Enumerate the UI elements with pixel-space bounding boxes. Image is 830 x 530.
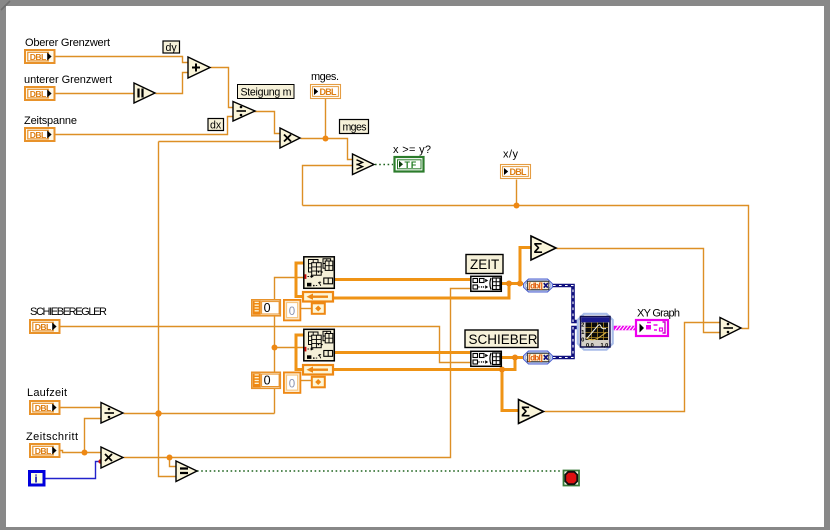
feedback node upper (303, 292, 333, 302)
wire ZEIT node out to convert (502, 282, 523, 285)
wire ZEIT branch to top sum (520, 248, 531, 284)
svg-text:dx: dx (210, 120, 222, 132)
junction dot lower divide out (155, 410, 161, 416)
wire lower array node out to SCHIEBER node (335, 351, 470, 354)
junction dot SCHIEBER feedback (499, 367, 505, 373)
label dx (208, 119, 224, 132)
wire greater-equal lower input from x/y (303, 166, 353, 206)
node convert to dynamic SCHIEBER (524, 351, 553, 364)
wire lower divide out with risers (124, 413, 275, 415)
svg-text:1: 1 (581, 330, 584, 336)
svg-text:Zeitschritt: Zeitschritt (26, 431, 78, 443)
label mges (340, 120, 369, 134)
junction dot lower multiply out (167, 455, 173, 461)
wire ZEIT feedback loop (334, 284, 509, 299)
svg-text:x >= y?: x >= y? (393, 144, 431, 156)
svg-text:mges: mges (343, 122, 367, 134)
svg-text:2: 2 (581, 323, 584, 329)
svg-text:0,0: 0,0 (586, 343, 594, 349)
wire dynamic data ZEIT (553, 286, 578, 322)
svg-text:mges.: mges. (311, 71, 339, 83)
wire boolean dotted to stop (197, 470, 562, 472)
wire divide to multiply (254, 112, 281, 134)
svg-text:SCHIEBER: SCHIEBER (469, 332, 538, 347)
wire negate to add (156, 73, 189, 94)
label dy (163, 41, 180, 54)
terminal stop button (564, 471, 580, 486)
junction dot SCHIEBER out (512, 355, 518, 361)
label ZEIT (466, 255, 503, 274)
node greater-equal (353, 154, 375, 175)
junction dot multiply out (323, 136, 329, 142)
constant 0 lower init (284, 372, 301, 393)
wire lower feedback to array node input (296, 335, 304, 370)
node convert to dynamic ZEIT (524, 279, 553, 292)
control Zeitspanne DBL (25, 128, 55, 141)
wire riser to equal lower input (159, 414, 177, 477)
junction dot x/y tap (514, 203, 520, 209)
wire add to divide (211, 68, 234, 108)
wire bottom sum to right divide (545, 323, 721, 412)
svg-text:Laufzeit: Laufzeit (27, 387, 67, 399)
wire index branch lower array node (275, 347, 305, 349)
svg-text:x/y: x/y (503, 149, 519, 161)
wire Zeitspanne to divide (56, 117, 234, 135)
svg-text:ZEIT: ZEIT (470, 257, 499, 272)
svg-text:i: i (35, 474, 38, 486)
node add (188, 57, 210, 78)
node sum top (531, 236, 556, 260)
control Laufzeit DBL (30, 401, 60, 414)
wire riser index to array nodes (275, 278, 305, 414)
wire riser to multiply upper (158, 142, 160, 414)
indicator x/y DBL (501, 165, 531, 179)
wire unterer Grenzwert to negate (56, 93, 135, 95)
node build-array SCHIEBER (471, 351, 502, 366)
constant 0 upper DBL (252, 300, 280, 316)
node divide upper (233, 102, 255, 122)
wire top sum to right divide (557, 249, 721, 333)
wire x/y indicator drop (516, 180, 518, 206)
wire upper feedback to array node input (296, 263, 304, 297)
node negate (134, 83, 155, 103)
wire Laufzeit to lower divide (61, 407, 102, 409)
indicator x greater equal y TF (395, 157, 424, 172)
wire x/y long horizontal (303, 206, 749, 329)
wire multiply out to greater-equal (301, 139, 353, 160)
junction dot ZEIT out a (506, 281, 512, 287)
node build-array ZEIT (471, 276, 502, 291)
svg-text:unterer Grenzwert: unterer Grenzwert (24, 74, 112, 86)
wire branch to equal node (170, 458, 177, 467)
terminal iteration i (30, 472, 45, 486)
wire slope long input to multiply (159, 141, 281, 143)
node divide right (720, 318, 741, 339)
wire SCHIEBER feedback loop (334, 358, 515, 370)
svg-text:TF: TF (405, 160, 418, 170)
junction dot Zeitschritt branch (82, 450, 88, 456)
node sum bottom (519, 400, 544, 424)
node upper replace-array (304, 257, 335, 289)
wire iteration terminal blue (45, 462, 100, 479)
svg-text:0: 0 (581, 338, 584, 344)
wire Zeitschritt branch to lower divide (85, 419, 102, 453)
control SCHIEBEREGLER DBL (30, 320, 60, 333)
control Zeitschritt DBL (30, 444, 60, 457)
svg-text:SCHIEBEREGLER: SCHIEBEREGLER (30, 306, 107, 318)
feedback node lower (303, 365, 333, 375)
junction dot index riser (272, 345, 278, 351)
svg-text:1,0: 1,0 (601, 343, 609, 349)
wire magenta to XY Graph (613, 326, 636, 330)
wire Zeitschritt to lower multiply (61, 451, 102, 453)
svg-text:Steigung m: Steigung m (241, 87, 292, 99)
node lower divide (101, 403, 123, 424)
indicator mges. DBL (311, 85, 341, 99)
wire Oberer Grenzwert to add (56, 57, 189, 63)
wire dynamic data SCHIEBER (553, 328, 578, 358)
wire branch to mges indicator (325, 99, 327, 139)
svg-text:Zeitspanne: Zeitspanne (24, 115, 77, 127)
junction dot ZEIT out b (517, 281, 523, 287)
feedback initializer lower (312, 377, 325, 388)
wire const to lower initializer (301, 380, 312, 382)
svg-text:dy: dy (166, 42, 178, 54)
wire boolean dotted to TF (375, 164, 393, 166)
svg-text:Oberer Grenzwert: Oberer Grenzwert (25, 37, 110, 49)
wire const to upper initializer (301, 308, 312, 310)
terminal XY Graph (636, 320, 668, 336)
node equal (176, 461, 197, 482)
wire branch to bottom sum (502, 370, 519, 411)
constant 0 lower DBL (252, 372, 280, 388)
node lower multiply (101, 447, 123, 468)
control Oberer Grenzwert DBL (25, 50, 55, 63)
node multiply upper (280, 128, 300, 148)
wire SCHIEBEREGLER to lower array (61, 327, 471, 363)
wire upper array node out to ZEIT node (335, 278, 470, 281)
express VI Build XY Graph (578, 314, 613, 350)
feedback initializer upper (312, 303, 325, 314)
wire lower multiply out long (124, 289, 471, 458)
label SCHIEBER (465, 330, 538, 348)
label Steigung m (238, 85, 295, 99)
constant 0 upper init (284, 300, 301, 321)
svg-text:XY Graph: XY Graph (637, 308, 680, 320)
control unterer Grenzwert DBL (25, 87, 55, 100)
node lower replace-array (304, 329, 335, 361)
coercion dot red (98, 459, 102, 463)
wire SCHIEBER node out to convert (502, 356, 523, 359)
